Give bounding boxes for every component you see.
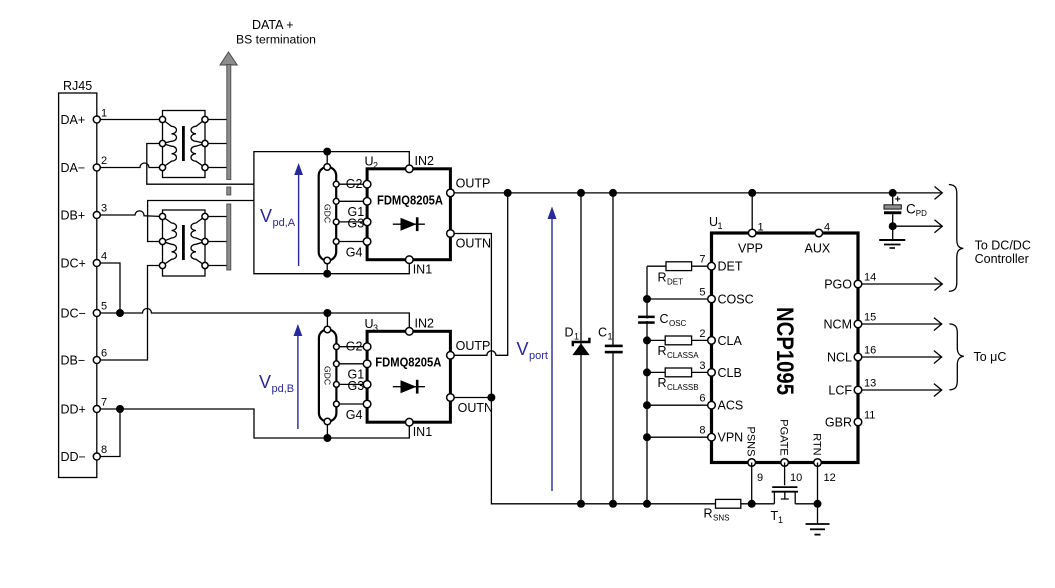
svg-text:DA+: DA+ (61, 113, 86, 127)
svg-text:IN2: IN2 (415, 317, 435, 331)
svg-text:15: 15 (864, 312, 876, 324)
arrow from CPD node (893, 220, 943, 233)
wire VPP up to rail (751, 193, 753, 233)
MOSFET T1 (771, 463, 799, 526)
RJ45 connector J1 (59, 79, 97, 478)
svg-text:DA−: DA− (61, 161, 86, 175)
bridge rectifier U2 FDMQ8205A (346, 154, 491, 277)
svg-text:NCL: NCL (827, 351, 852, 365)
DATA BS termination arrow (220, 52, 237, 270)
svg-text:CLB: CLB (718, 366, 742, 380)
svg-text:GDC: GDC (323, 366, 333, 385)
svg-text:To μC: To μC (974, 350, 1007, 364)
wire pin4 down to pin5 node (97, 263, 120, 313)
svg-text:C: C (906, 202, 916, 217)
svg-text:DC+: DC+ (61, 257, 86, 271)
svg-text:+: + (895, 194, 901, 205)
svg-text:R: R (658, 271, 667, 285)
svg-text:V: V (260, 206, 272, 226)
transformer TX2 wires to termination bar (205, 217, 227, 266)
junction pins 7-8 (116, 405, 124, 413)
resistor RSNS (704, 499, 741, 522)
svg-text:Controller: Controller (975, 252, 1029, 266)
wire U3 GDC bottom stub (326, 422, 328, 439)
junction RTN-rail (814, 500, 822, 508)
svg-text:ACS: ACS (718, 399, 744, 413)
svg-text:LCF: LCF (828, 384, 852, 398)
left bias bus (646, 266, 648, 504)
svg-text:4: 4 (101, 251, 107, 263)
svg-text:5: 5 (699, 287, 705, 299)
wire U2 IN1 feed (327, 260, 409, 274)
wire U3 IN2 feed (327, 313, 409, 331)
junction pins 4-5 (116, 309, 124, 317)
svg-text:DB−: DB− (61, 354, 86, 368)
junction U3 OUTN (487, 394, 495, 402)
svg-text:R: R (658, 376, 667, 390)
svg-text:14: 14 (864, 272, 876, 284)
svg-text:16: 16 (864, 345, 876, 357)
bridge rectifier U3 FDMQ8205A (346, 317, 493, 440)
svg-text:1: 1 (608, 332, 613, 342)
svg-text:PD: PD (916, 209, 927, 218)
resistor RCLASSB (647, 368, 712, 392)
Vpd-A arrow (294, 163, 303, 266)
ground at RTN (806, 524, 830, 535)
IC U1 NCP1095 (709, 215, 858, 463)
transformer TX2 (159, 210, 208, 276)
arrow NCM (862, 318, 942, 331)
Vpd-A loop left rail (254, 152, 327, 274)
svg-text:DATA +: DATA + (252, 18, 294, 32)
svg-text:DD−: DD− (61, 450, 86, 464)
wire T1 center tap to Vpd-A rail (147, 144, 254, 185)
svg-text:OSC: OSC (669, 319, 687, 328)
wire U2 OUTN down (455, 234, 716, 504)
wire pin2 to T1 bottom with hop (97, 163, 163, 168)
top rail arrowhead (935, 187, 943, 200)
svg-text:1: 1 (778, 515, 783, 525)
wire U2 GDC bottom stub (326, 261, 328, 274)
svg-text:pd,B: pd,B (272, 383, 295, 395)
svg-text:6: 6 (101, 348, 107, 360)
node bus-rail (643, 500, 651, 508)
capacitor COSC (638, 299, 711, 328)
svg-text:FDMQ8205A: FDMQ8205A (377, 193, 444, 208)
GDC strip U2 (319, 164, 367, 264)
svg-text:R: R (658, 344, 667, 358)
svg-text:pd,A: pd,A (273, 217, 296, 229)
svg-text:R: R (704, 507, 713, 521)
svg-text:OUTP: OUTP (456, 339, 491, 353)
wire U2 GDC top stub (326, 152, 328, 167)
svg-text:port: port (529, 350, 548, 362)
svg-text:9: 9 (757, 472, 763, 484)
svg-text:GDC: GDC (323, 204, 333, 223)
svg-text:1: 1 (101, 108, 107, 120)
svg-text:PSNS: PSNS (745, 427, 757, 457)
svg-text:3: 3 (699, 360, 705, 372)
svg-text:CLASSA: CLASSA (667, 351, 699, 360)
junction rail OUTP (504, 189, 512, 197)
svg-text:G4: G4 (346, 408, 363, 422)
diode inside U2 (393, 217, 425, 231)
wire pin3 to T2 top with hop (97, 211, 163, 217)
svg-text:C: C (660, 312, 669, 326)
node bus-ACS (643, 401, 651, 409)
svg-text:7: 7 (699, 254, 705, 266)
brace To DC/DC Controller (949, 185, 963, 292)
diode inside U3 (393, 380, 425, 394)
node bus-COSC (643, 295, 651, 303)
arrow LCF (862, 384, 942, 397)
svg-text:7: 7 (101, 397, 107, 409)
junction U2 top (323, 148, 331, 156)
svg-text:6: 6 (699, 393, 705, 405)
svg-text:PGO: PGO (824, 278, 852, 292)
svg-text:10: 10 (790, 472, 802, 484)
svg-text:CLA: CLA (718, 334, 743, 348)
svg-text:8: 8 (699, 425, 705, 437)
svg-text:To DC/DC: To DC/DC (975, 239, 1031, 253)
wire U3 IN1 feed (327, 422, 409, 438)
capacitor C1 (598, 189, 623, 508)
svg-text:PGATE: PGATE (778, 419, 790, 455)
svg-text:OUTN: OUTN (456, 237, 491, 251)
resistor RDET (647, 262, 712, 287)
capacitor CPD (884, 189, 927, 226)
svg-text:1: 1 (758, 222, 764, 234)
svg-text:AUX: AUX (805, 242, 831, 256)
arrow PGO (862, 278, 942, 291)
junction U2 bottom (323, 270, 331, 278)
top positive rail (455, 192, 943, 194)
svg-text:G3: G3 (348, 217, 365, 231)
svg-text:8: 8 (101, 444, 107, 456)
svg-text:2: 2 (699, 328, 705, 340)
svg-text:SNS: SNS (713, 514, 729, 523)
junction U3 top (323, 309, 331, 317)
svg-text:V: V (259, 372, 271, 392)
svg-text:GBR: GBR (825, 416, 852, 430)
IC pin circles (708, 229, 862, 466)
svg-text:G4: G4 (346, 246, 363, 260)
U3 pin circles (363, 328, 454, 427)
svg-text:G2: G2 (346, 340, 363, 354)
svg-text:VPP: VPP (738, 242, 763, 256)
ground at CPD (879, 226, 905, 248)
node bus-VPN (643, 433, 651, 441)
svg-text:G3: G3 (348, 379, 365, 393)
svg-text:IN1: IN1 (413, 425, 433, 439)
arrow NCL (862, 351, 942, 364)
transformer TX1 (159, 111, 208, 178)
svg-text:4: 4 (824, 222, 830, 234)
wire ACS (647, 404, 712, 406)
wire pin8 up to pin7 node (97, 409, 120, 457)
junction U3 bottom (323, 434, 331, 442)
transformer TX1 wires to termination bar (205, 120, 227, 168)
wire T1 drain to RTN node (795, 503, 817, 505)
svg-text:NCM: NCM (824, 318, 852, 332)
wire U2 IN2 feed (327, 152, 409, 169)
svg-text:DET: DET (718, 260, 743, 274)
wire pin6 up to T2 bottom (97, 266, 163, 361)
svg-text:5: 5 (101, 301, 107, 313)
svg-text:3: 3 (373, 323, 378, 333)
svg-text:12: 12 (824, 472, 836, 484)
svg-text:13: 13 (864, 378, 876, 390)
svg-text:3: 3 (101, 203, 107, 215)
svg-text:BS termination: BS termination (236, 33, 316, 47)
svg-text:COSC: COSC (718, 293, 754, 307)
svg-text:OUTN: OUTN (458, 401, 493, 415)
wire U3 OUTN stub (455, 397, 492, 399)
svg-text:IN2: IN2 (415, 154, 435, 168)
wire T2 center tap to Vpd-A rail (148, 201, 254, 242)
svg-text:11: 11 (864, 410, 875, 422)
node bus-CLB (643, 368, 651, 376)
wire pin7 to Vpd-B bottom feed (97, 409, 328, 438)
IC pin labels (718, 242, 853, 445)
svg-text:DB+: DB+ (61, 209, 86, 223)
svg-text:IN1: IN1 (413, 263, 433, 277)
svg-text:D: D (565, 326, 574, 340)
resistor RCLASSA (647, 336, 712, 360)
wire U3 GDC top stub (326, 313, 328, 330)
svg-text:1: 1 (574, 332, 579, 342)
svg-text:VPN: VPN (718, 431, 744, 445)
brace To uC (949, 324, 963, 390)
svg-text:RTN: RTN (811, 433, 823, 455)
svg-text:CLASSB: CLASSB (667, 383, 699, 392)
wire VPN (647, 436, 712, 438)
svg-text:G2: G2 (346, 177, 363, 191)
zener diode D1 (565, 189, 590, 508)
Vport arrow (548, 207, 557, 492)
svg-text:FDMQ8205A: FDMQ8205A (375, 355, 442, 370)
RJ45 pin circles (93, 116, 100, 123)
svg-text:V: V (517, 339, 529, 359)
GDC strip U3 (319, 326, 367, 425)
svg-text:2: 2 (101, 155, 107, 167)
U2 pin circles (363, 165, 454, 264)
svg-text:RJ45: RJ45 (63, 79, 92, 93)
wire PSNS down (751, 463, 753, 504)
junction CPD bottom (889, 222, 897, 230)
wire U3 OUTP up to rail with hop (455, 193, 508, 355)
svg-text:C: C (598, 326, 607, 340)
svg-text:DC−: DC− (61, 307, 86, 321)
Vpd-B arrow (294, 324, 303, 429)
wire pin5 to U3 GDC node with hop (97, 309, 328, 314)
svg-text:OUTP: OUTP (456, 177, 491, 191)
junction rail-VPP (748, 189, 756, 197)
svg-text:NCP1095: NCP1095 (771, 307, 798, 395)
wire pin1 to T1 top (97, 119, 163, 121)
svg-text:DD+: DD+ (61, 403, 86, 417)
wire RTN down (817, 463, 819, 525)
svg-text:1: 1 (718, 221, 723, 231)
junction PSNS-rail (748, 500, 756, 508)
wire RSNS to T1 source (741, 503, 775, 505)
IC pin numbers (699, 222, 876, 485)
svg-text:DET: DET (667, 278, 683, 287)
node bus-CLA (643, 336, 651, 344)
svg-text:2: 2 (373, 161, 378, 171)
